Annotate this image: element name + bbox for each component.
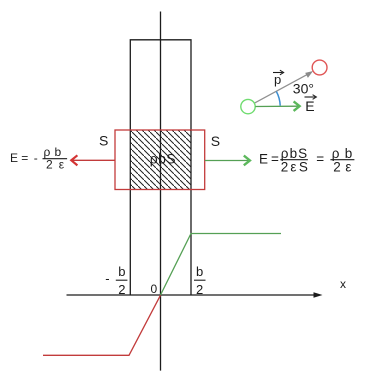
svg-text:ρbS: ρbS — [150, 151, 176, 167]
svg-text:2: 2 — [46, 158, 53, 172]
svg-text:2: 2 — [281, 160, 289, 175]
svg-text:-: - — [34, 151, 38, 165]
svg-text:ε: ε — [290, 160, 296, 175]
svg-text:=: = — [316, 152, 324, 167]
svg-text:b: b — [196, 264, 203, 279]
svg-text:E: E — [10, 151, 18, 165]
svg-text:ε: ε — [59, 158, 65, 172]
svg-text:x: x — [340, 277, 346, 291]
svg-text:S: S — [211, 133, 220, 149]
svg-text:2: 2 — [333, 160, 341, 175]
svg-text:E: E — [259, 152, 268, 167]
svg-text:=: = — [21, 151, 28, 165]
svg-text:S: S — [99, 133, 108, 149]
svg-text:2: 2 — [118, 282, 125, 297]
svg-text:-: - — [105, 271, 109, 286]
svg-text:S: S — [299, 160, 308, 175]
svg-text:2: 2 — [196, 282, 203, 297]
svg-text:0: 0 — [151, 282, 158, 296]
svg-text:30°: 30° — [293, 81, 314, 97]
svg-text:ε: ε — [345, 160, 351, 175]
svg-text:=: = — [271, 152, 279, 167]
svg-text:E: E — [305, 98, 314, 114]
svg-text:b: b — [118, 264, 125, 279]
